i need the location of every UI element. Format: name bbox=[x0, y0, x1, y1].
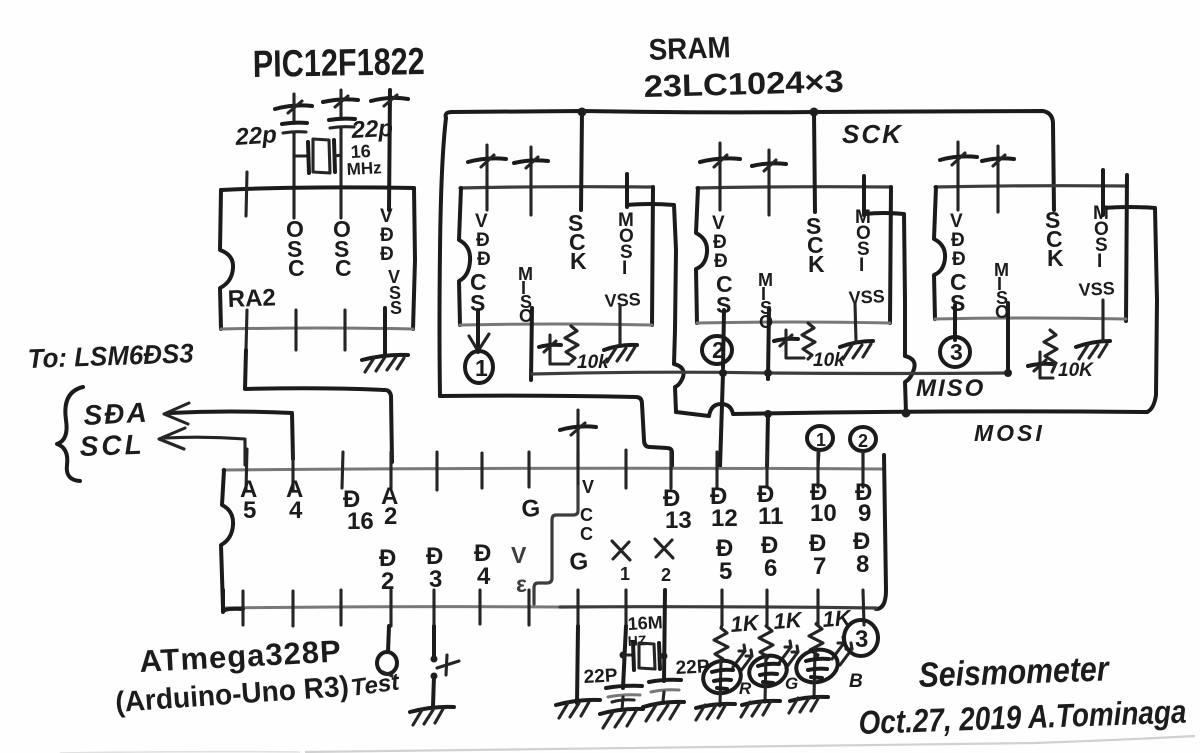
pin tick: ATmega bottom pin bbox=[241, 591, 244, 625]
IC U5 ATmega328P body bbox=[221, 455, 886, 612]
svg-text:16M: 16M bbox=[627, 612, 663, 634]
svg-text:S: S bbox=[390, 298, 402, 318]
pin tick: ATmega bottom D6 bbox=[765, 590, 768, 625]
svg-text:10: 10 bbox=[810, 500, 837, 527]
pin tick: ATmega bottom pin bbox=[291, 591, 294, 626]
svg-text:K: K bbox=[808, 251, 825, 277]
svg-text:9: 9 bbox=[858, 500, 871, 527]
svg-text:4: 4 bbox=[289, 497, 303, 524]
svg-text:Seismometer: Seismometer bbox=[918, 649, 1111, 695]
IC U1 PIC12F1822 body bbox=[220, 187, 415, 329]
capacitor C3 22P on X1 bbox=[583, 665, 642, 710]
pin tick: ATmega top D11 bbox=[765, 452, 768, 487]
pin tick: ATmega bottom D8 bbox=[863, 590, 864, 625]
pin tick: ATmega top G bbox=[527, 452, 530, 487]
svg-text:Đ: Đ bbox=[713, 232, 727, 253]
svg-text:I: I bbox=[1097, 251, 1102, 272]
pin tick: ATmega top pin bbox=[624, 450, 627, 488]
svg-text:4: 4 bbox=[477, 563, 491, 590]
svg-text:1K: 1K bbox=[773, 607, 805, 634]
svg-text:ε: ε bbox=[516, 571, 527, 597]
power +V on SRAM2 VDD pin bbox=[700, 143, 740, 210]
wire: VCC internal step (gray) bbox=[534, 487, 578, 604]
pin tick: ATmega top D16 bbox=[342, 452, 343, 488]
pin tick: ATmega bottom D5 bbox=[720, 590, 723, 625]
capacitor C2 22p (OSC2) bbox=[329, 103, 394, 155]
wire: SCK drop into SRAM2 bbox=[814, 112, 815, 212]
svg-text:3: 3 bbox=[950, 339, 963, 365]
svg-text:12: 12 bbox=[711, 505, 738, 532]
pin tick: ATmega bottom V5 bbox=[527, 590, 530, 625]
svg-text:22p: 22p bbox=[234, 121, 278, 151]
wire: MISO bus bbox=[532, 372, 1008, 374]
svg-text:C: C bbox=[288, 255, 305, 281]
pin tick: ATmega top A4 bbox=[291, 450, 294, 490]
ground: PIC VSS bbox=[362, 355, 408, 372]
wire: SRAM2 MOSI pin hook to long vertical bbox=[905, 356, 915, 382]
svg-text:Đ: Đ bbox=[952, 249, 966, 270]
switch: D3 pushbutton to ground bbox=[431, 626, 460, 706]
wire: MOSI bus drop to D11 bbox=[767, 414, 768, 467]
power +V on SRAM1 VDD pin bbox=[468, 145, 506, 210]
resistor R1 10K pullup SRAM1 bbox=[539, 326, 610, 373]
pin stub: PIC RA2 bottom bbox=[246, 310, 247, 350]
svg-text:PIC12F1822: PIC12F1822 bbox=[252, 41, 425, 86]
svg-text:7: 7 bbox=[813, 553, 826, 580]
pin tick: ATmega top pin bbox=[480, 453, 483, 488]
svg-text:G: G bbox=[521, 495, 542, 523]
node ref: circled 2 below SRAM2 CS bbox=[702, 336, 732, 364]
svg-text:S: S bbox=[950, 290, 965, 316]
pin tick: ATmega top D13 bbox=[669, 452, 672, 488]
svg-text:Đ: Đ bbox=[380, 225, 394, 246]
svg-text:V: V bbox=[712, 213, 725, 234]
pin tick: ATmega bottom D7 bbox=[816, 590, 819, 625]
svg-text:Đ: Đ bbox=[951, 230, 965, 251]
wire: MOSI bus bbox=[676, 404, 1147, 416]
svg-text:1: 1 bbox=[816, 430, 826, 450]
svg-text:16: 16 bbox=[347, 508, 374, 535]
svg-text:13: 13 bbox=[665, 507, 692, 534]
svg-text:6: 6 bbox=[764, 555, 777, 582]
svg-text:Đ: Đ bbox=[477, 249, 491, 270]
pin tick: ATmega bottom pin bbox=[339, 590, 342, 625]
capacitor C1 22p (OSC1) bbox=[234, 106, 307, 156]
wire: SCK bus step down to D13 bbox=[440, 396, 672, 468]
pin tick: ATmega top A5 bbox=[246, 449, 247, 490]
svg-text:C: C bbox=[580, 505, 593, 525]
svg-text:3: 3 bbox=[855, 626, 868, 653]
wire: SRAM1 MISO pin down to MISO bus bbox=[531, 308, 532, 380]
svg-text:10k: 10k bbox=[577, 352, 610, 373]
pin tick: ATmega top A2 bbox=[389, 452, 392, 488]
svg-text:V: V bbox=[380, 206, 393, 227]
svg-text:V: V bbox=[475, 211, 488, 232]
svg-text:O: O bbox=[759, 312, 773, 332]
power +V symbol on C1 bbox=[275, 94, 312, 113]
ground: SRAM1 VSS bbox=[604, 345, 637, 362]
node ref: circled 3 below SRAM3 CS bbox=[940, 337, 970, 367]
svg-text:11: 11 bbox=[758, 503, 783, 530]
pin stub: PIC bottom pin 3 bbox=[343, 310, 346, 350]
svg-text:G: G bbox=[569, 548, 590, 576]
IC U4 SRAM 23LC1024 #3 body bbox=[934, 175, 1127, 321]
wire: SRAM1 MOSI pin hook bbox=[674, 364, 684, 387]
node ref: circled 1 below SRAM1 CS bbox=[465, 351, 493, 383]
svg-text:MISO: MISO bbox=[916, 375, 985, 402]
svg-text:RA2: RA2 bbox=[227, 284, 276, 313]
power +V on SRAM3 HOLD pin bbox=[982, 146, 1014, 212]
wire: SRAM2 MISO pin down to MISO bus bbox=[768, 308, 769, 379]
resistor R3 10K pullup SRAM3 bbox=[1028, 330, 1094, 381]
ground: X1 cap bbox=[600, 709, 643, 728]
svg-text:VSS: VSS bbox=[1078, 278, 1115, 300]
pin tick: ATmega top D9 bbox=[861, 452, 864, 487]
wire: SRAM2 VSS pin stub bbox=[855, 303, 856, 341]
ground: LED G bbox=[741, 701, 780, 717]
power +V on SRAM1 HOLD pin bbox=[514, 147, 548, 215]
svg-text:Oct.27, 2019 A.Tominaga: Oct.27, 2019 A.Tominaga bbox=[858, 693, 1187, 741]
ground: SRAM2 VSS bbox=[840, 341, 873, 359]
capacitor C4 22P on X2 bbox=[649, 656, 710, 701]
pin tick: ATmega bottom D2 bbox=[389, 590, 392, 626]
node: MOSI junction D11 drop bbox=[764, 410, 772, 418]
node: MISO junction D12 drop bbox=[719, 369, 727, 377]
svg-text:To: LSM6ĐS3: To: LSM6ĐS3 bbox=[27, 338, 194, 374]
svg-text:V: V bbox=[511, 542, 527, 568]
wire: SRAM3 MOSI pin hook to right vertical bbox=[1103, 170, 1157, 412]
pin stub: PIC bottom pin 2 bbox=[294, 310, 297, 350]
svg-text:Đ: Đ bbox=[714, 251, 728, 272]
LED D5 red bbox=[700, 645, 752, 706]
power +V on SRAM2 HOLD pin bbox=[752, 150, 786, 215]
wire: OSC2 into PIC bbox=[339, 155, 342, 218]
pin tick: ATmega top D10 bbox=[816, 453, 819, 487]
ground: X2 cap bbox=[643, 702, 684, 721]
svg-text:1: 1 bbox=[620, 564, 630, 584]
wire: SRAM3 CS pin down bbox=[953, 305, 957, 340]
wire: MISO bus drop to D12 with hop over MOSI bus bbox=[720, 373, 723, 467]
wire: X1 down bbox=[623, 626, 626, 688]
LED D6 green bbox=[746, 641, 798, 702]
crystal X1 16MHz bbox=[294, 139, 382, 179]
wire: SRAM3 MISO pin down to MISO bus bbox=[1006, 303, 1010, 373]
node: MISO junction SRAM2 bbox=[764, 369, 772, 377]
wire: SDA to A4 with arrow bbox=[164, 403, 293, 459]
pin tick: ATmega bottom D4 bbox=[478, 590, 481, 624]
svg-text:I: I bbox=[859, 255, 864, 276]
wire: SCK drop into SRAM1 bbox=[581, 112, 582, 210]
node ref: circled 3 below D8 bbox=[844, 620, 878, 656]
svg-text:ATmega328P: ATmega328P bbox=[139, 633, 343, 679]
node: MOSI junction SRAM2 vertical bbox=[902, 409, 911, 418]
svg-text:Test: Test bbox=[349, 668, 402, 702]
svg-text:HZ: HZ bbox=[627, 632, 647, 649]
IC U2 SRAM 23LC1024 #1 body bbox=[459, 187, 653, 325]
power +V on SRAM3 VDD pin bbox=[940, 142, 977, 210]
node: SCK junction SRAM1 bbox=[578, 108, 587, 117]
wire: SRAM2 CS pin down bbox=[723, 310, 724, 368]
pin tick: ATmega top D12 bbox=[715, 452, 718, 488]
pin stub: PIC VSS bottom bbox=[383, 308, 387, 353]
svg-text:SCL: SCL bbox=[79, 429, 145, 462]
svg-text:C: C bbox=[335, 255, 352, 281]
resistor R5 1K on D6 bbox=[759, 607, 805, 660]
svg-text:2: 2 bbox=[661, 565, 671, 585]
svg-text:MHz: MHz bbox=[346, 158, 382, 179]
resistor R6 1K on D7 bbox=[809, 605, 854, 658]
svg-text:2: 2 bbox=[858, 431, 868, 451]
svg-text:22p: 22p bbox=[350, 115, 394, 144]
svg-text:1: 1 bbox=[475, 355, 488, 381]
pin tick: ATmega bottom G bbox=[576, 590, 579, 626]
wire: VDD line with +V symbol bbox=[371, 90, 408, 210]
ground: SRAM3 VSS bbox=[1076, 341, 1110, 359]
svg-text:1K: 1K bbox=[730, 610, 762, 637]
ground: LED B bbox=[789, 697, 828, 713]
resistor R2 10K pullup SRAM2 bbox=[774, 323, 846, 371]
svg-text:R: R bbox=[739, 679, 752, 698]
ground: ATmega G bbox=[556, 700, 600, 718]
pin tick: ATmega top VCC bbox=[576, 452, 579, 487]
LED D7 blue bbox=[793, 637, 863, 698]
wire: SCL to A5 with arrow bbox=[159, 428, 245, 465]
pin tick: ATmega bottom D3 bbox=[432, 590, 435, 626]
svg-text:SCK: SCK bbox=[842, 119, 903, 149]
svg-text:10K: 10K bbox=[1058, 360, 1094, 381]
svg-text:3: 3 bbox=[429, 566, 442, 593]
resistor R4 1K on D5 bbox=[714, 610, 762, 663]
power +V symbol on C2 bbox=[323, 90, 358, 107]
svg-text:SRAM: SRAM bbox=[648, 31, 731, 67]
svg-text:5: 5 bbox=[243, 497, 256, 524]
wire: G pin to ground bbox=[577, 626, 578, 703]
svg-text:B: B bbox=[849, 671, 863, 692]
node: SCK junction SRAM2 bbox=[810, 108, 819, 117]
wire: SCK bus left vertical down bbox=[440, 118, 447, 396]
pin tick: ATmega bottom X1-X2 bbox=[624, 590, 627, 626]
wire: SRAM3 VSS pin stub bbox=[1101, 300, 1104, 341]
wire: SRAM1 VSS pin stub bbox=[618, 305, 621, 344]
svg-text:5: 5 bbox=[719, 558, 732, 585]
svg-text:G: G bbox=[785, 674, 798, 693]
pin label: X2 bbox=[655, 539, 673, 585]
pin tick: ATmega top pin bbox=[435, 452, 438, 490]
svg-text:23LC1024×3: 23LC1024×3 bbox=[643, 64, 844, 104]
svg-text:8: 8 bbox=[856, 551, 869, 578]
svg-text:VSS: VSS bbox=[604, 289, 641, 311]
svg-text:2: 2 bbox=[712, 337, 725, 363]
svg-text:MOSI: MOSI bbox=[974, 420, 1045, 446]
node: MISO junction SRAM3 bbox=[1004, 369, 1012, 377]
ground: LED R bbox=[696, 704, 735, 720]
pin label: X1 bbox=[612, 541, 630, 584]
crystal X2 16MHz (bottom) bbox=[620, 612, 668, 670]
svg-text:22P: 22P bbox=[583, 665, 618, 688]
wire: SRAM1 CS pin down with arrow bbox=[469, 310, 489, 352]
svg-text:V: V bbox=[950, 211, 963, 232]
IC U3 SRAM 23LC1024 #2 body bbox=[696, 187, 891, 323]
ground: D3 switch bbox=[410, 707, 454, 725]
node ref: circled 2 above D9 bbox=[850, 427, 876, 468]
node ref: circled 1 above D10 bbox=[807, 426, 833, 468]
test point: D2 wire to Q bbox=[349, 626, 402, 702]
svg-text:V: V bbox=[582, 477, 594, 497]
svg-text:I: I bbox=[622, 258, 627, 279]
svg-text:Đ: Đ bbox=[380, 244, 394, 265]
svg-text:K: K bbox=[1047, 245, 1064, 271]
brace: left curly bracket bbox=[57, 387, 83, 481]
wire: SCK bus top bbox=[446, 111, 1054, 210]
svg-text:SĐA: SĐA bbox=[83, 397, 150, 431]
power +V symbol at ATmega VCC bbox=[560, 410, 596, 468]
pin stub: PIC pin top-left bbox=[246, 172, 247, 216]
svg-text:C: C bbox=[580, 524, 593, 544]
svg-text:K: K bbox=[570, 248, 587, 274]
wire: PIC RA2 to ATmega A2 bbox=[245, 350, 392, 462]
wire: OSC1 into PIC bbox=[292, 156, 295, 218]
svg-text:2: 2 bbox=[384, 503, 397, 530]
svg-text:Đ: Đ bbox=[476, 230, 490, 251]
svg-text:10k: 10k bbox=[813, 350, 846, 371]
wire: X2 down bbox=[664, 590, 665, 681]
svg-text:2: 2 bbox=[381, 568, 394, 595]
